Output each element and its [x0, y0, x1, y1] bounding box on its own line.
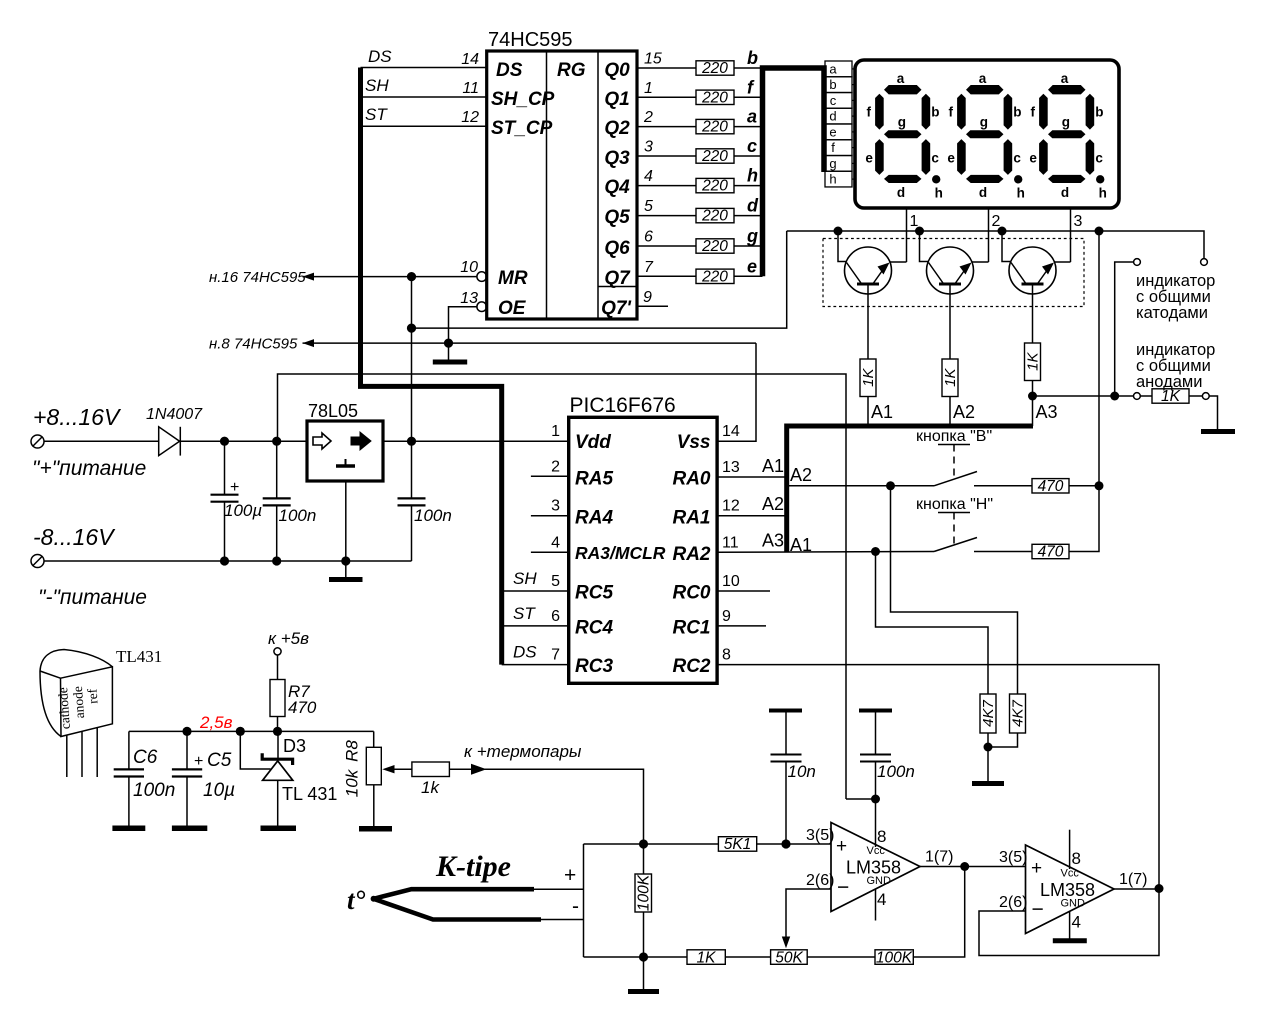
wire + input to diode: [44, 440, 159, 442]
svg-text:C5: C5: [207, 750, 232, 771]
svg-text:ST: ST: [365, 105, 388, 124]
svg-text:-8...16V: -8...16V: [33, 524, 116, 550]
svg-text:ST: ST: [513, 604, 536, 623]
ground R8: [359, 826, 392, 832]
wire RA stub pin 4: [531, 551, 569, 553]
ground 4K7: [972, 781, 1004, 786]
resistor 1K gain: [687, 949, 725, 966]
segment input box g: [825, 156, 852, 172]
wire resistor to segment bus: [734, 185, 763, 187]
wire resistor to segment bus: [734, 215, 763, 217]
wire Q output row f: [637, 96, 696, 98]
node dot: [639, 952, 648, 961]
svg-text:1K: 1K: [1025, 352, 1042, 371]
wire ST from bus to PIC: [502, 625, 569, 627]
svg-text:1K: 1K: [697, 949, 717, 966]
svg-text:+: +: [194, 753, 203, 770]
node dot at C2: [272, 437, 281, 446]
svg-text:4K7: 4K7: [980, 700, 997, 727]
svg-text:Vcc: Vcc: [1061, 868, 1080, 880]
svg-text:-: -: [572, 895, 579, 918]
svg-text:470: 470: [1038, 478, 1064, 495]
wire button H to 470: [974, 551, 1032, 553]
pin bubble OE pin 13: [477, 302, 487, 312]
svg-text:RC1: RC1: [672, 618, 710, 639]
wire collector of Q2 to digit pin: [972, 261, 989, 263]
wire + path to 5K1: [584, 843, 719, 845]
svg-text:c: c: [747, 136, 757, 156]
svg-text:100n: 100n: [877, 762, 915, 781]
svg-text:10: 10: [460, 259, 478, 276]
wire emitter of A2 transistor down: [949, 284, 951, 359]
bus A1/A2/A3 thick line: [787, 426, 1033, 552]
svg-text:2,5в: 2,5в: [199, 713, 233, 732]
svg-text:f: f: [831, 140, 835, 155]
svg-text:4: 4: [877, 890, 886, 909]
wire to R7: [277, 655, 279, 680]
wire 1K to 50K: [725, 956, 770, 958]
svg-text:катодами: катодами: [1136, 304, 1208, 322]
terminal circle cathode-left: [1134, 259, 1141, 266]
pin bubble MR pin 10: [477, 272, 487, 282]
svg-text:RA1: RA1: [672, 508, 710, 529]
wire Q output row e: [637, 275, 696, 277]
wire base of Q3 from rail: [1002, 231, 1011, 262]
svg-text:RA0: RA0: [672, 469, 710, 490]
svg-text:R8: R8: [343, 740, 362, 762]
wire resistor to segment bus: [734, 96, 763, 98]
ground anode resistor: [1201, 429, 1235, 434]
display module body: [855, 60, 1119, 208]
wire +5V to op-amp Vcc: [846, 798, 876, 800]
svg-text:5K1: 5K1: [724, 836, 752, 853]
node dot: [407, 272, 416, 281]
svg-text:220: 220: [701, 60, 728, 77]
svg-text:D3: D3: [283, 736, 306, 756]
wire RC0 pin 10 stub: [717, 590, 770, 592]
svg-text:+: +: [230, 479, 239, 496]
ground op-amp 2: [1053, 938, 1087, 943]
terminal circle anode-right: [1202, 393, 1209, 400]
transistor array dashed outline: [823, 239, 1084, 307]
svg-text:10n: 10n: [788, 762, 816, 781]
svg-text:11: 11: [722, 534, 739, 551]
transistor Q3: [1009, 247, 1056, 294]
svg-text:RA2: RA2: [672, 544, 710, 565]
wire 2.5V reference rail: [129, 730, 374, 732]
wire Q output row d: [637, 215, 696, 217]
terminal "+" input: [31, 435, 44, 448]
svg-text:C6: C6: [133, 747, 158, 768]
svg-text:+8...16V: +8...16V: [33, 404, 122, 430]
svg-text:A2: A2: [790, 465, 812, 485]
svg-text:d: d: [747, 196, 759, 216]
svg-text:h: h: [747, 166, 758, 186]
resistor 220 segment b: [696, 60, 734, 77]
svg-text:K-tipe: K-tipe: [435, 850, 511, 883]
svg-text:14: 14: [461, 51, 479, 68]
svg-text:RA3/MCLR: RA3/MCLR: [575, 543, 666, 563]
svg-text:Q3: Q3: [604, 148, 630, 169]
svg-text:78L05: 78L05: [308, 401, 358, 421]
node dot: [871, 547, 880, 556]
resistor 220 segment c: [696, 148, 734, 165]
resistor 220 segment d: [696, 208, 734, 225]
node dot: [341, 556, 350, 565]
svg-text:1K: 1K: [860, 368, 877, 387]
svg-text:кнопка "Н": кнопка "Н": [916, 496, 993, 513]
7-segment digit at 1068.5: [1039, 85, 1104, 184]
ground C5: [172, 825, 207, 831]
wire op2 output: [1114, 888, 1159, 890]
wire Q output row a: [637, 126, 696, 128]
svg-text:Q7: Q7: [604, 268, 631, 289]
IC U4 PIC16F676 body: [569, 394, 717, 683]
svg-text:100µ: 100µ: [224, 501, 262, 520]
svg-text:Q2: Q2: [604, 118, 630, 139]
svg-text:A3: A3: [762, 531, 784, 551]
svg-text:Q1: Q1: [604, 89, 629, 110]
svg-text:b: b: [829, 77, 836, 92]
svg-text:220: 220: [701, 119, 728, 136]
wire diode to 78L05: [180, 440, 307, 442]
svg-text:470: 470: [288, 698, 317, 717]
svg-text:2: 2: [992, 213, 1001, 230]
svg-text:100K: 100K: [876, 949, 913, 966]
junction: [1095, 227, 1104, 236]
svg-text:1k: 1k: [421, 778, 440, 797]
label индикатор с общими катодами: [1136, 272, 1215, 322]
wire 78L05 ground lead: [345, 481, 347, 577]
wire op1 output to op2 +: [920, 866, 1026, 868]
resistor 220 segment e: [696, 268, 734, 285]
wire Vcc lead into op-amp 1: [875, 799, 877, 847]
wire +5V to transistor rail: [412, 231, 787, 328]
wire +5V rail over transistors: [787, 231, 1204, 259]
ground divider: [628, 989, 659, 994]
wire resistor to segment bus: [734, 245, 763, 247]
wire A2 resistor to bus: [949, 397, 951, 427]
wire +5V branch y=374 to opamp rail: [278, 374, 847, 799]
diode D1 1N4007: [146, 406, 203, 456]
svg-text:MR: MR: [498, 268, 528, 289]
wire RA1 pin 12 to A-bus: [717, 515, 787, 517]
svg-text:Vcc: Vcc: [867, 845, 886, 857]
node dot: [273, 727, 282, 736]
svg-text:к +5в: к +5в: [268, 629, 309, 648]
wire - rail: [44, 560, 412, 562]
terminal circle anode-left: [1134, 393, 1141, 400]
svg-text:ref: ref: [84, 688, 100, 704]
svg-text:1K: 1K: [942, 368, 959, 387]
wire RC2 pin 8 to op-amp output: [717, 665, 1159, 889]
thermocouple - lead: [374, 899, 584, 920]
svg-text:11: 11: [462, 80, 479, 97]
svg-text:10k: 10k: [343, 768, 362, 797]
svg-text:10: 10: [722, 573, 740, 590]
wire collector of Q3 to digit pin: [1054, 261, 1071, 263]
svg-text:8: 8: [722, 647, 731, 664]
svg-text:6: 6: [644, 229, 653, 246]
svg-text:Vdd: Vdd: [575, 432, 611, 453]
svg-text:74HC595: 74HC595: [488, 29, 573, 51]
capacitor C6 100n: [114, 731, 176, 826]
svg-text:3: 3: [644, 139, 653, 156]
wire 470 resistors right column: [1098, 231, 1100, 486]
svg-text:2: 2: [551, 458, 560, 475]
svg-text:100K: 100K: [636, 874, 653, 911]
wire н.8 74HC595 (GND net): [209, 336, 756, 353]
node dot: [1155, 884, 1164, 893]
svg-text:A1: A1: [762, 456, 784, 476]
svg-text:e: e: [747, 256, 757, 276]
capacitor C5 10µ: [172, 731, 235, 826]
svg-text:PIC16F676: PIC16F676: [570, 394, 676, 417]
wire common-cathode left terminal riser: [1115, 262, 1134, 396]
svg-text:13: 13: [722, 459, 740, 476]
node dot: [984, 743, 993, 752]
svg-text:a: a: [829, 61, 837, 76]
svg-text:4: 4: [1072, 913, 1081, 932]
segment input box f: [825, 140, 852, 156]
svg-text:8: 8: [1072, 849, 1081, 868]
svg-text:100n: 100n: [133, 780, 175, 801]
op-amp U1a LM358: [806, 823, 953, 921]
potentiometer 50K: [771, 949, 808, 966]
node dot: [220, 556, 229, 565]
segment input box b: [825, 77, 852, 93]
svg-text:RA4: RA4: [575, 508, 613, 529]
resistor 470 (B): [1032, 478, 1069, 495]
label индикатор с общими анодами: [1136, 341, 1215, 391]
label "+"питание: [32, 457, 146, 480]
wire base of Q1 from rail: [838, 231, 847, 262]
thermocouple junction: [371, 896, 377, 902]
node dot: [182, 727, 191, 736]
svg-text:+: +: [836, 836, 847, 857]
wire SH from bus to PIC: [502, 590, 569, 592]
resistor 1K (A3): [1025, 343, 1042, 381]
wire resistor to segment bus: [734, 275, 763, 277]
svg-text:470: 470: [1038, 544, 1064, 561]
wire 100K divider ground: [643, 957, 645, 989]
svg-text:Q4: Q4: [604, 177, 630, 198]
wire emitter of A1 transistor down: [867, 284, 869, 359]
svg-text:6: 6: [551, 608, 560, 625]
7-segment digit at 904.5: [875, 85, 940, 184]
svg-text:GND: GND: [867, 875, 892, 887]
ground at logic: [433, 343, 467, 362]
svg-text:4: 4: [644, 168, 653, 185]
wire 4K7 bottoms join: [988, 733, 1018, 747]
svg-text:1: 1: [551, 423, 560, 440]
svg-text:TL 431: TL 431: [282, 784, 337, 804]
svg-text:5: 5: [644, 198, 653, 215]
svg-text:g: g: [829, 156, 836, 171]
shunt regulator D3 TL431: [240, 731, 337, 826]
wire 470 to +5 column: [1069, 485, 1099, 487]
wire A3 resistor to bus and right: [1032, 381, 1034, 427]
junction: [915, 227, 924, 236]
svg-text:220: 220: [701, 178, 728, 195]
wire bottom rail from input to 1K: [584, 956, 688, 958]
wire R7 to 2.5V node: [277, 717, 279, 732]
svg-text:f: f: [747, 77, 755, 97]
resistor 1K (A1): [860, 359, 877, 397]
transistor Q1: [845, 247, 892, 294]
ground D3: [261, 825, 297, 831]
node dot: [960, 862, 969, 871]
svg-text:"+"питание: "+"питание: [32, 457, 146, 480]
svg-text:220: 220: [701, 268, 728, 285]
7-segment digit at 986.5: [957, 85, 1022, 184]
wire 78L05 output to PIC Vdd pin 1: [383, 440, 569, 442]
terminal circle cathode-right: [1201, 259, 1208, 266]
svg-text:DS: DS: [496, 60, 523, 81]
node dot: [871, 795, 880, 804]
svg-text:Q5: Q5: [604, 207, 630, 228]
svg-text:GND: GND: [1061, 898, 1086, 910]
wire Q output row c: [637, 155, 696, 157]
node dot: [407, 324, 416, 333]
wire Q output row b: [637, 67, 696, 69]
junction: [834, 227, 843, 236]
svg-text:t°: t°: [347, 885, 366, 915]
wire +5V riser to н.16 row: [411, 277, 413, 442]
label -8...16V: [33, 524, 116, 550]
wire op1 - input to 50K wiper: [782, 889, 831, 948]
potentiometer R8 10k: [343, 731, 382, 797]
wire RA0 pin 13 to A-bus: [717, 476, 787, 478]
svg-text:RC5: RC5: [575, 583, 613, 604]
svg-text:н.8 74HC595: н.8 74HC595: [209, 336, 298, 353]
svg-text:A3: A3: [1036, 402, 1058, 422]
button кнопка "В": [916, 428, 992, 486]
thermocouple + lead: [374, 889, 584, 899]
wire RA stub pin 3: [531, 515, 569, 517]
svg-text:A1: A1: [790, 535, 812, 555]
svg-text:TL431: TL431: [116, 647, 162, 666]
svg-text:2(6): 2(6): [806, 872, 834, 889]
capacitor 100n op-amp supply: [859, 711, 915, 800]
wire digit 2 common pin: [988, 208, 990, 262]
svg-text:RC4: RC4: [575, 618, 613, 639]
svg-text:100n: 100n: [279, 506, 317, 525]
svg-text:SH: SH: [365, 76, 389, 95]
svg-text:a: a: [747, 107, 757, 127]
svg-text:к +термопары: к +термопары: [464, 742, 582, 761]
wire ST to pin 12: [361, 125, 487, 127]
svg-text:3(5): 3(5): [806, 827, 834, 844]
wire feedback down to 100K: [913, 867, 964, 958]
TO-92 package drawing TL431: [40, 650, 112, 778]
wire Q output row g: [637, 245, 696, 247]
svg-text:h: h: [829, 172, 836, 187]
wire input node vertical: [583, 844, 585, 957]
transistor Q2: [927, 247, 974, 294]
wire base of Q2 from rail: [920, 231, 929, 262]
wire resistor to segment bus: [734, 67, 763, 69]
svg-text:220: 220: [701, 89, 728, 106]
wire button B node to 4K7 #2: [891, 486, 1018, 694]
capacitor C2 100n: [263, 441, 317, 561]
segment input box h: [825, 171, 852, 187]
wire Q7' pin 9 stub: [637, 305, 668, 307]
node dot: [1110, 392, 1119, 401]
resistor 4K7 #2: [1010, 694, 1027, 733]
wire 50K to 100K: [807, 956, 875, 958]
svg-text:н.16 74HC595: н.16 74HC595: [209, 269, 306, 286]
resistor 220 segment f: [696, 89, 734, 106]
capacitor C4 100n at regulator output: [398, 441, 452, 561]
resistor 5K1: [718, 836, 756, 853]
resistor 100K feedback: [875, 949, 913, 966]
svg-text:1K: 1K: [1161, 388, 1181, 405]
op-amp U1b LM358: [999, 830, 1147, 939]
bus segment lines thick vertical: [763, 68, 825, 276]
wire RA2 pin 11 through bus to button H: [717, 551, 934, 554]
svg-text:b: b: [747, 48, 758, 68]
node dot: [886, 481, 895, 490]
svg-text:3: 3: [1074, 213, 1083, 230]
segment input box a: [825, 61, 852, 77]
svg-text:DS: DS: [368, 47, 392, 66]
svg-text:d: d: [829, 109, 836, 124]
node dot: [639, 839, 648, 848]
wiper arrow of R8: [382, 765, 412, 773]
svg-text:−: −: [1032, 898, 1044, 921]
svg-text:RA5: RA5: [575, 469, 613, 490]
wire н.16 74HC595 (+5V to MR pin): [209, 269, 477, 286]
svg-text:A2: A2: [762, 494, 784, 514]
terminal к +5в: [268, 629, 309, 655]
wire DS to pin 14: [361, 67, 487, 69]
wire RA stub pin 2: [531, 475, 569, 477]
svg-text:Q0: Q0: [604, 60, 630, 81]
svg-text:"-"питание: "-"питание: [38, 586, 147, 609]
svg-text:9: 9: [643, 289, 652, 306]
svg-text:50K: 50K: [775, 949, 803, 966]
svg-text:2(6): 2(6): [999, 894, 1027, 911]
node dot at C1: [220, 437, 229, 446]
svg-text:OE: OE: [498, 298, 527, 319]
wire A1 resistor to bus: [867, 397, 869, 427]
wire 5K1 to op-amp +: [757, 843, 831, 845]
svg-text:Q6: Q6: [604, 238, 630, 259]
svg-text:A2: A2: [953, 402, 975, 422]
wire SH to pin 11: [361, 96, 487, 98]
svg-text:g: g: [746, 226, 758, 246]
svg-text:8: 8: [877, 827, 886, 846]
wire op2 feedback loop: [979, 889, 1159, 956]
svg-text:220: 220: [701, 238, 728, 255]
svg-text:e: e: [829, 124, 836, 139]
svg-text:3: 3: [551, 498, 560, 515]
wire R8 bottom to ground: [373, 785, 375, 826]
wire resistor to segment bus: [734, 155, 763, 157]
svg-text:Vss: Vss: [677, 432, 711, 453]
svg-text:RC2: RC2: [672, 656, 710, 677]
wire button B to 470: [974, 485, 1032, 487]
resistor 1K (A2): [942, 359, 959, 397]
wire ground to Vss pin 14: [717, 343, 756, 441]
svg-text:1(7): 1(7): [925, 849, 953, 866]
resistor 100K input divider: [635, 844, 653, 957]
resistor 1K common anode: [1140, 388, 1202, 405]
label +8...16V: [33, 404, 122, 430]
capacitor 10n: [769, 711, 816, 845]
wire button H node to 4K7 #1: [876, 552, 989, 695]
